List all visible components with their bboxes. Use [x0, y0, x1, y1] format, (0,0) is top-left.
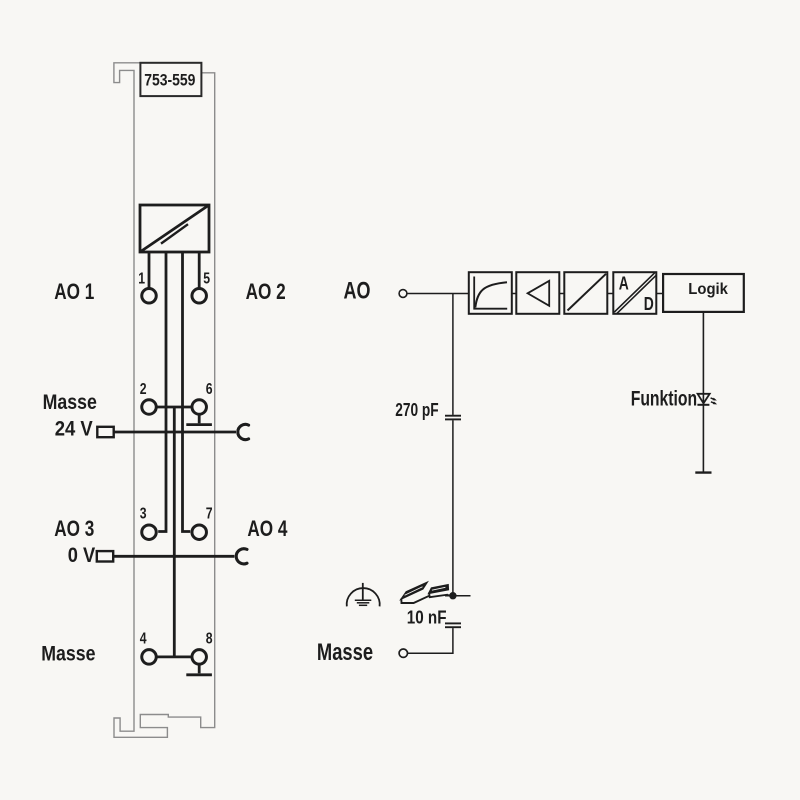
svg-text:2: 2 [140, 380, 147, 398]
wire center vertical pin2/6 to pin4/8 [173, 407, 176, 657]
Masse terminal circle [399, 649, 407, 657]
svg-text:A: A [619, 274, 629, 294]
wire Logik down to LED [702, 312, 704, 473]
pin 8 [192, 650, 207, 665]
rail right flange band [428, 585, 448, 594]
24V bus wire [114, 431, 236, 434]
svg-text:7: 7 [206, 504, 213, 522]
svg-text:AO 4: AO 4 [247, 517, 287, 542]
amplifier box [516, 272, 559, 314]
capacitor 270pF bottom plate [445, 418, 461, 420]
LED arrow 2 [711, 402, 717, 405]
capacitor 270pF top plate [445, 415, 461, 417]
LED termination bar [695, 471, 711, 473]
0V bus wire [113, 555, 234, 558]
DIN rail 3D symbol [401, 582, 453, 603]
svg-text:D: D [644, 294, 654, 314]
pin 6 jumper contact stub [198, 415, 201, 424]
AO wire to filter box [407, 293, 469, 295]
pin 4 [142, 650, 157, 665]
svg-text:AO 1: AO 1 [54, 280, 94, 305]
earth ground stub [362, 583, 364, 600]
stub filter to amp [512, 293, 517, 295]
pin 8 jumper contact bar [186, 673, 212, 676]
svg-text:Masse: Masse [43, 391, 97, 415]
rail left end drop and foot [401, 596, 429, 603]
filter axes [474, 277, 507, 309]
wire DAC to pin7 [183, 252, 191, 532]
DAC inner parallel line [161, 224, 188, 243]
svg-text:AO 3: AO 3 [54, 517, 94, 542]
linear diagonal [568, 274, 607, 311]
filter box (step response) [469, 272, 512, 314]
earth ground bar 1 [355, 599, 372, 601]
stub linear to A/D [607, 293, 613, 295]
DAC diagonal [140, 205, 209, 252]
earth ground bar 2 [357, 602, 370, 604]
stub amp to linear [559, 293, 564, 295]
linear transfer box [564, 272, 607, 314]
svg-text:753-559: 753-559 [144, 71, 195, 89]
amplifier triangle [528, 281, 550, 306]
svg-text:5: 5 [203, 269, 210, 287]
A/D diagonal double line [614, 273, 656, 314]
LED triangle [698, 394, 710, 404]
svg-text:3: 3 [140, 504, 147, 522]
LED arrow 1 [711, 398, 717, 401]
wire pin2 to pin6 [158, 406, 191, 409]
24V field connector square [97, 427, 113, 437]
Logik box [663, 274, 744, 312]
DAC box U1 [140, 205, 209, 252]
pin 6 jumper contact bar [186, 423, 212, 426]
AO terminal circle [399, 290, 407, 298]
earth ground bar 3 [359, 604, 367, 606]
label box 753-559 [140, 63, 201, 96]
wire 270pF to junction [452, 420, 454, 595]
module outline 753-559 housing [114, 63, 215, 738]
svg-text:Masse: Masse [41, 642, 95, 666]
pin 5 [192, 289, 207, 304]
wire junction to right [445, 595, 471, 597]
rail tip wire to junction [447, 594, 453, 597]
svg-text:Masse: Masse [317, 638, 373, 666]
svg-text:0 V: 0 V [68, 544, 95, 567]
AO branch wire down [452, 294, 454, 415]
wire DAC to pin3 [158, 252, 166, 532]
filter curve [475, 282, 507, 307]
24V jumper contact arc [238, 424, 249, 439]
wire DAC to pin1 [148, 252, 151, 289]
pin 2 [142, 400, 157, 415]
rail left flange band [401, 582, 428, 600]
svg-text:1: 1 [138, 269, 145, 287]
A/D converter box [613, 272, 656, 314]
pin 8 jumper contact stub [198, 664, 201, 673]
pin 7 [192, 525, 207, 540]
rail right flange highlight [432, 587, 446, 590]
pin 6 [192, 400, 207, 415]
svg-text:8: 8 [206, 629, 213, 647]
pin 3 [142, 525, 157, 540]
0V jumper contact arc [236, 549, 247, 564]
svg-text:Logik: Logik [688, 280, 728, 298]
svg-text:24 V: 24 V [55, 417, 94, 440]
earth ground symbol arc [347, 588, 380, 606]
svg-text:4: 4 [140, 629, 147, 647]
junction dot [449, 592, 456, 599]
wire 10nF down and to Masse terminal [408, 628, 453, 653]
rail left flange highlight [405, 587, 423, 596]
svg-text:Funktion: Funktion [631, 386, 697, 410]
rail right drop and bottom edge [429, 592, 448, 597]
stub A/D to Logik [656, 293, 663, 295]
capacitor 10nF top plate [445, 622, 461, 624]
0V field connector square [97, 551, 113, 561]
svg-text:10 nF: 10 nF [407, 607, 447, 628]
svg-text:6: 6 [206, 380, 213, 398]
pin 1 [142, 289, 157, 304]
svg-text:AO: AO [344, 278, 371, 304]
svg-text:AO 2: AO 2 [246, 280, 286, 305]
LED cathode bar [697, 404, 709, 406]
wire DAC to pin5 [198, 252, 201, 289]
wire pin4 to pin8 [158, 656, 191, 659]
svg-text:270 pF: 270 pF [395, 400, 438, 420]
capacitor 10nF bottom plate [445, 626, 461, 628]
